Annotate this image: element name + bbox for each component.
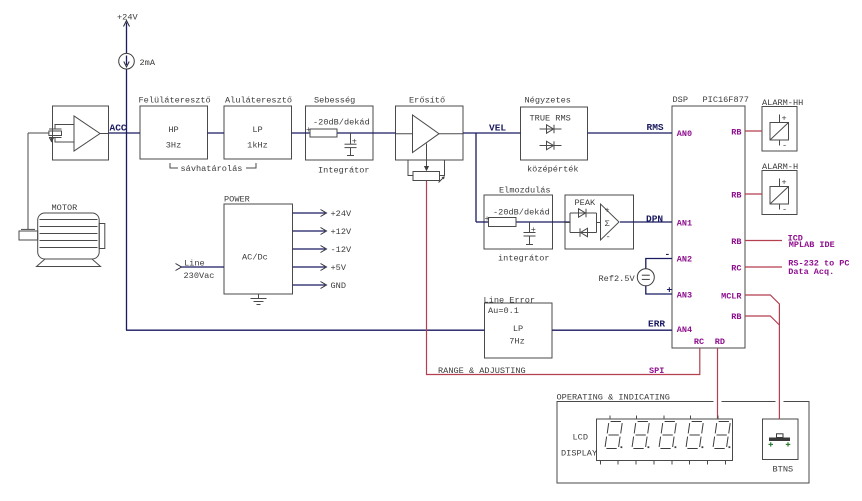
svg-text:AN3: AN3	[677, 290, 692, 300]
svg-text:MCLR: MCLR	[721, 291, 742, 301]
svg-text:Négyzetes: Négyzetes	[525, 96, 571, 106]
svg-text:PIC16F877: PIC16F877	[703, 95, 749, 105]
svg-text:LP: LP	[513, 324, 523, 334]
svg-text:Line Error: Line Error	[484, 296, 536, 306]
svg-text:-20dB/dekád: -20dB/dekád	[493, 208, 550, 218]
svg-text:-: -	[665, 249, 671, 260]
svg-text:+: +	[782, 178, 787, 188]
svg-text:7Hz: 7Hz	[509, 337, 524, 347]
svg-text:RB: RB	[731, 190, 741, 200]
svg-text:AN4: AN4	[677, 325, 692, 335]
svg-text:sávhatárolás: sávhatárolás	[181, 164, 243, 174]
svg-text:RC: RC	[731, 263, 741, 273]
svg-text:ALARM-HH: ALARM-HH	[762, 98, 803, 108]
svg-text:AN1: AN1	[677, 219, 692, 229]
svg-text:-: -	[606, 232, 611, 242]
svg-text:középérték: középérték	[527, 165, 579, 175]
svg-text:+24V: +24V	[331, 209, 352, 219]
svg-text:Line: Line	[184, 259, 205, 269]
svg-text:ACC: ACC	[110, 123, 127, 134]
svg-text:DISPLAY: DISPLAY	[561, 449, 597, 459]
svg-text:Integrátor: Integrátor	[318, 166, 370, 176]
svg-text:1kHz: 1kHz	[247, 141, 268, 151]
svg-text:+: +	[605, 206, 610, 216]
svg-text:+: +	[485, 214, 490, 224]
svg-text:+: +	[306, 125, 311, 135]
svg-text:RD: RD	[715, 337, 725, 347]
svg-text:+5V: +5V	[331, 263, 347, 273]
svg-text:HP: HP	[168, 125, 178, 135]
svg-text:AC/Dc: AC/Dc	[242, 253, 268, 263]
svg-text:+: +	[782, 114, 787, 124]
svg-text:GND: GND	[331, 281, 346, 291]
svg-text:RMS: RMS	[647, 122, 664, 133]
svg-text:Elmozdulás: Elmozdulás	[499, 186, 551, 196]
svg-text:AN0: AN0	[677, 129, 692, 139]
svg-text:Data Acq.: Data Acq.	[788, 267, 834, 277]
svg-text:Felüláteresztő: Felüláteresztő	[139, 96, 211, 106]
svg-text:-20dB/dekád: -20dB/dekád	[313, 118, 370, 128]
svg-text:AN2: AN2	[677, 255, 692, 265]
svg-text:RB: RB	[731, 127, 741, 137]
svg-text:PEAK: PEAK	[575, 198, 596, 208]
svg-text:LP: LP	[252, 125, 262, 135]
svg-text:ALARM-H: ALARM-H	[762, 162, 798, 172]
svg-text:DPN: DPN	[646, 214, 663, 225]
svg-text:integrátor: integrátor	[498, 254, 550, 264]
svg-text:+: +	[352, 137, 357, 147]
svg-text:RANGE & ADJUSTING: RANGE & ADJUSTING	[438, 366, 526, 376]
svg-text:BTNS: BTNS	[773, 465, 794, 475]
svg-text:OPERATING & INDICATING: OPERATING & INDICATING	[557, 393, 670, 403]
svg-text:RB: RB	[731, 312, 741, 322]
svg-text:230Vac: 230Vac	[184, 271, 215, 281]
svg-text:+24V: +24V	[117, 13, 138, 23]
svg-text:LCD: LCD	[573, 433, 588, 443]
svg-text:VEL: VEL	[489, 123, 506, 134]
svg-text:+: +	[667, 285, 673, 296]
svg-text:Au=0.1: Au=0.1	[488, 306, 519, 316]
svg-text:-: -	[782, 141, 787, 151]
svg-text:Erősítő: Erősítő	[409, 96, 445, 106]
svg-text:DSP: DSP	[673, 95, 688, 105]
svg-text:TRUE RMS: TRUE RMS	[530, 114, 571, 124]
svg-text:-: -	[782, 205, 787, 215]
svg-text:Σ: Σ	[605, 219, 610, 229]
svg-text:+: +	[531, 225, 536, 235]
svg-text:Aluláteresztő: Aluláteresztő	[225, 96, 292, 106]
svg-text:Sebesség: Sebesség	[314, 96, 355, 106]
svg-text:-12V: -12V	[331, 245, 352, 255]
svg-text:SPI: SPI	[649, 366, 664, 376]
svg-text:RB: RB	[731, 237, 741, 247]
svg-text:2mA: 2mA	[140, 58, 156, 68]
svg-text:MOTOR: MOTOR	[52, 203, 78, 213]
svg-text:Ref2.5V: Ref2.5V	[599, 274, 636, 284]
svg-text:ERR: ERR	[648, 319, 665, 330]
svg-text:+12V: +12V	[331, 227, 352, 237]
svg-text:RC: RC	[694, 337, 704, 347]
svg-text:POWER: POWER	[224, 195, 250, 205]
svg-text:3Hz: 3Hz	[166, 141, 181, 151]
svg-text:MPLAB IDE: MPLAB IDE	[789, 240, 835, 250]
